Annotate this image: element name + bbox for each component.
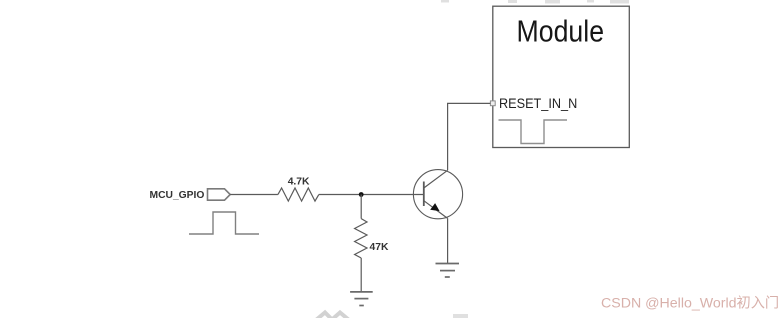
svg-text:MCU_GPIO: MCU_GPIO <box>150 190 205 201</box>
waveform reset pulse (active-low) <box>499 120 568 144</box>
ground Q1 <box>436 264 460 278</box>
svg-text:CSDN @Hello_World初入门: CSDN @Hello_World初入门 <box>601 295 779 312</box>
transistor Q1 emitter arrow <box>430 203 439 211</box>
ground R2 <box>350 292 373 306</box>
wire R2 to ground <box>360 258 362 292</box>
wire R1 to base <box>319 194 424 196</box>
resistor R2 47K <box>355 219 367 258</box>
input pulse waveform <box>189 212 259 234</box>
wire emitter to ground <box>447 218 449 263</box>
transistor Q1 collector <box>424 170 448 188</box>
wire connector to R1 <box>230 194 278 196</box>
watermark fragment 2 <box>453 314 468 318</box>
wire junction to R2 <box>360 195 362 219</box>
watermark top fragments <box>441 0 629 4</box>
connector MCU_GPIO tag <box>208 189 231 200</box>
svg-text:Module: Module <box>517 15 604 49</box>
svg-text:47K: 47K <box>370 242 389 253</box>
transistor Q1 base bar <box>423 182 425 207</box>
svg-text:RESET_IN_N: RESET_IN_N <box>499 96 577 112</box>
wire collector to pin <box>448 103 491 170</box>
svg-text:4.7K: 4.7K <box>288 177 310 188</box>
pin RESET_IN_N square <box>490 101 495 106</box>
resistor R1 4.7K <box>278 188 319 201</box>
junction node <box>359 192 364 197</box>
transistor Q1 body <box>413 170 462 219</box>
watermark fragment M <box>316 313 349 318</box>
module box U1 <box>493 6 630 147</box>
transistor Q1 emitter <box>424 201 448 219</box>
